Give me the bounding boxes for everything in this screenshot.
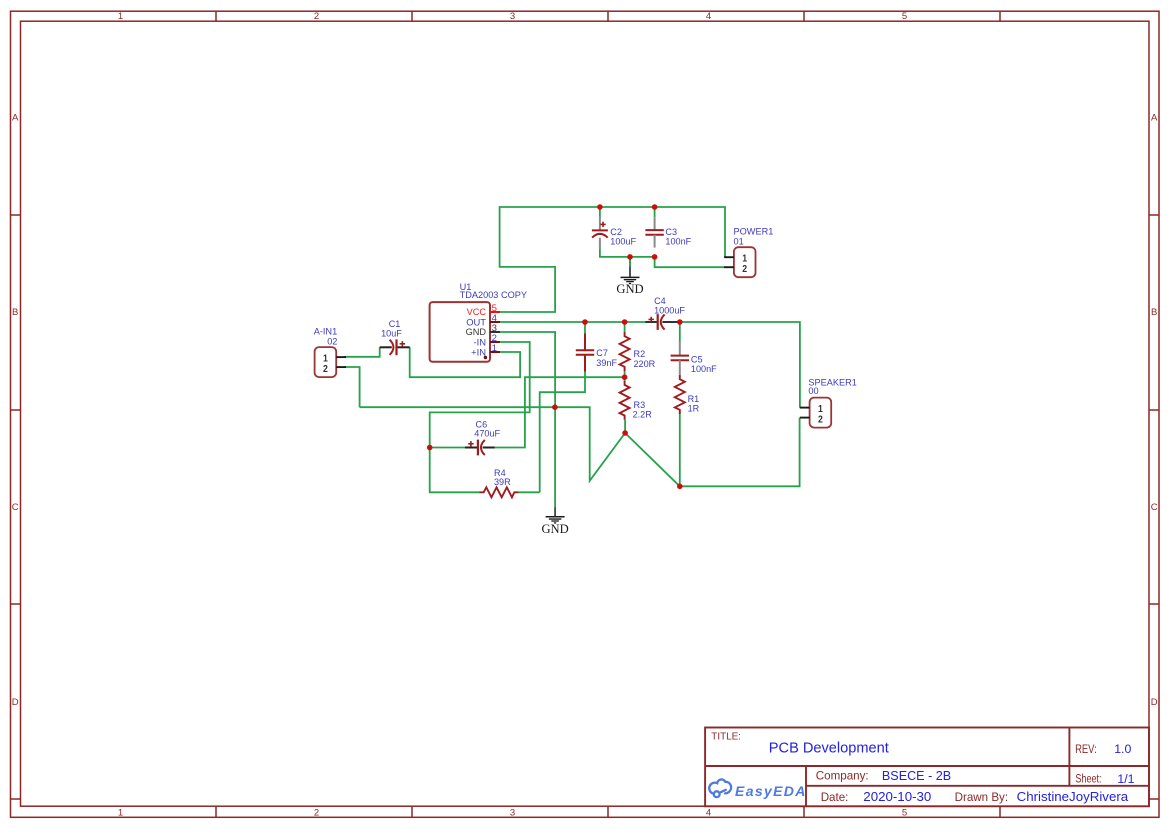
svg-text:C2: C2 xyxy=(610,227,622,237)
svg-text:OUT: OUT xyxy=(466,317,486,328)
svg-text:Sheet:: Sheet: xyxy=(1075,772,1101,786)
svg-text:+IN: +IN xyxy=(471,347,486,358)
svg-text:4: 4 xyxy=(706,11,711,22)
svg-text:C4: C4 xyxy=(654,296,666,306)
svg-text:1R: 1R xyxy=(688,404,700,414)
svg-text:C7: C7 xyxy=(596,348,608,358)
svg-text:1: 1 xyxy=(118,807,123,818)
svg-text:Company:: Company: xyxy=(816,769,869,782)
svg-text:02: 02 xyxy=(327,337,337,347)
svg-text:A: A xyxy=(1151,112,1158,123)
svg-text:PCB Development: PCB Development xyxy=(769,741,889,757)
svg-text:100uF: 100uF xyxy=(610,237,636,247)
svg-text:2: 2 xyxy=(818,414,823,426)
svg-text:470uF: 470uF xyxy=(474,429,500,439)
svg-text:C5: C5 xyxy=(691,354,703,364)
svg-text:5: 5 xyxy=(902,807,907,818)
svg-text:1000uF: 1000uF xyxy=(654,305,685,315)
svg-text:39R: 39R xyxy=(494,477,511,487)
svg-text:C3: C3 xyxy=(665,227,677,237)
svg-text:5: 5 xyxy=(902,11,907,22)
svg-text:GND: GND xyxy=(541,522,568,536)
svg-text:D: D xyxy=(12,697,19,708)
svg-text:GND: GND xyxy=(616,282,643,296)
svg-text:2.2R: 2.2R xyxy=(633,410,653,420)
svg-text:B: B xyxy=(12,307,18,318)
svg-text:A-IN1: A-IN1 xyxy=(314,327,338,337)
svg-text:1: 1 xyxy=(492,343,497,354)
svg-text:TITLE:: TITLE: xyxy=(711,732,741,743)
svg-text:4: 4 xyxy=(706,807,711,818)
svg-text:1: 1 xyxy=(118,11,123,22)
svg-text:2: 2 xyxy=(314,11,319,22)
svg-text:REV:: REV: xyxy=(1075,743,1097,756)
svg-text:EasyEDA: EasyEDA xyxy=(735,783,807,799)
svg-text:1.0: 1.0 xyxy=(1114,742,1131,756)
svg-text:2: 2 xyxy=(314,807,319,818)
svg-text:POWER1: POWER1 xyxy=(734,227,774,237)
svg-text:TDA2003 COPY: TDA2003 COPY xyxy=(460,290,527,300)
svg-text:10uF: 10uF xyxy=(381,328,402,338)
svg-text:B: B xyxy=(1151,307,1157,318)
svg-text:C: C xyxy=(1151,502,1158,513)
svg-text:220R: 220R xyxy=(634,359,656,369)
svg-text:ChristineJoyRivera: ChristineJoyRivera xyxy=(1017,789,1129,804)
svg-text:2: 2 xyxy=(742,263,747,275)
svg-text:100nF: 100nF xyxy=(691,364,717,374)
svg-text:Drawn By:: Drawn By: xyxy=(955,791,1008,804)
svg-text:R1: R1 xyxy=(688,394,700,404)
svg-text:01: 01 xyxy=(734,236,744,246)
svg-text:C: C xyxy=(12,502,19,513)
svg-text:Date:: Date: xyxy=(821,791,849,804)
svg-text:00: 00 xyxy=(808,386,818,396)
svg-text:2020-10-30: 2020-10-30 xyxy=(863,789,931,804)
svg-text:3: 3 xyxy=(510,11,515,22)
svg-text:3: 3 xyxy=(510,807,515,818)
svg-text:BSECE - 2B: BSECE - 2B xyxy=(882,769,951,783)
svg-text:1/1: 1/1 xyxy=(1117,772,1134,786)
svg-text:R3: R3 xyxy=(634,400,646,410)
svg-text:R2: R2 xyxy=(634,349,646,359)
svg-text:39nF: 39nF xyxy=(596,358,617,368)
svg-text:2: 2 xyxy=(323,363,328,375)
svg-text:D: D xyxy=(1151,697,1158,708)
svg-text:A: A xyxy=(12,112,19,123)
svg-text:100nF: 100nF xyxy=(665,237,691,247)
